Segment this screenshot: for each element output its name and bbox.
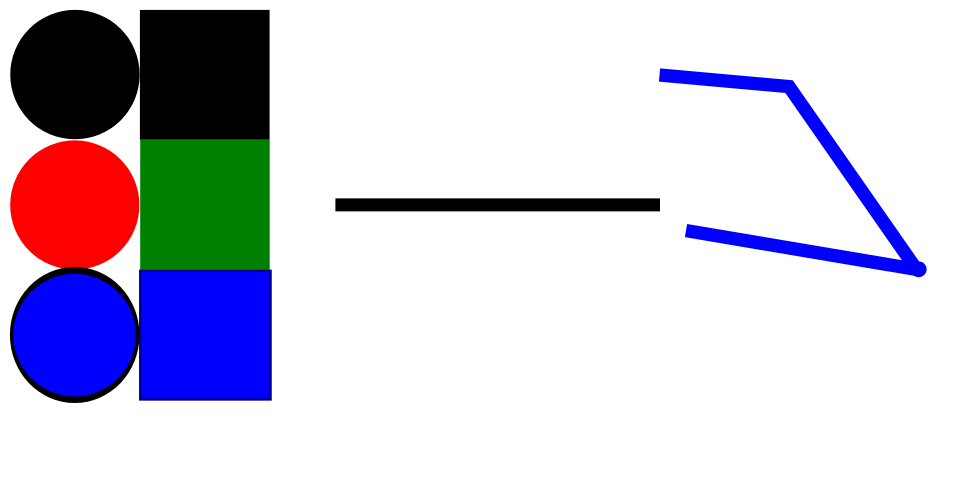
- circle blue: [13, 274, 136, 397]
- line black: [335, 198, 660, 211]
- rect black: [140, 10, 270, 140]
- circle red: [10, 140, 139, 269]
- rect green: [140, 140, 270, 270]
- polyline blue: [660, 75, 917, 269]
- circle black: [10, 10, 139, 139]
- polyline corner pad: [911, 261, 927, 277]
- ring outer (black ellipse behind blue circle): [10, 267, 140, 403]
- rect blue with navy border: [140, 271, 270, 400]
